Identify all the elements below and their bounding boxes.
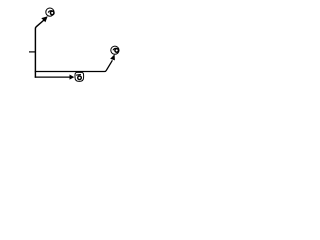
arrowhead bottom [70,75,75,80]
arrowhead top [41,16,47,22]
wire lower horizontal [35,76,70,78]
node symbol bottom (circle with spiral) [75,72,84,81]
wire upper horizontal [35,60,113,71]
node symbol right (circle with spiral) [111,46,119,54]
wire stub tick [29,51,35,53]
wire vertical main with bend to top diagonal [35,20,44,78]
arrowhead right [110,54,115,60]
node symbol top (circle with spiral) [46,8,54,16]
